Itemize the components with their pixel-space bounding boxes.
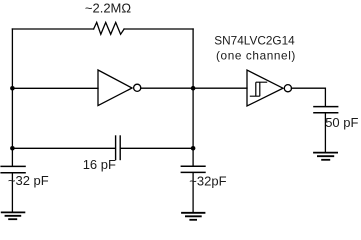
node C junction dot left-bottom (10, 146, 15, 151)
wire right vertical (192, 29, 194, 166)
capacitor C3 ~32pF right (181, 166, 206, 172)
ground right (313, 153, 338, 160)
svg-text:SN74LVC2G14: SN74LVC2G14 (214, 34, 295, 48)
wire cap to ground right (324, 113, 326, 153)
wire mid rail input (12, 87, 98, 89)
svg-text:~32pF: ~32pF (189, 173, 226, 188)
wire bottom rail left (12, 147, 115, 149)
wire cap to ground mid (192, 172, 194, 212)
inverter gate U1 (unbuffered inverter) (98, 70, 141, 106)
capacitor C1 16pF series (116, 135, 121, 160)
wire top rail right segment (124, 28, 193, 30)
svg-text:~2.2MΩ: ~2.2MΩ (85, 1, 131, 16)
node B junction dot right-mid (191, 86, 196, 91)
wire bottom rail right (121, 147, 193, 149)
wire left vertical (11, 29, 13, 166)
wire cap to ground left (11, 173, 13, 212)
wire inverter output to node (141, 87, 194, 89)
node D junction dot right-bottom (191, 146, 196, 151)
ground left (1, 212, 26, 219)
node A junction dot left-mid (10, 86, 15, 91)
capacitor C4 50pF right (313, 107, 338, 113)
schmitt-trigger inverter U2 SN74LVC2G14 (247, 70, 292, 106)
resistor R1 ~2.2Mohm (94, 22, 125, 34)
wire top rail left segment (12, 28, 93, 30)
svg-text:~32 pF: ~32 pF (8, 173, 49, 188)
wire schmitt output (291, 88, 325, 106)
ground mid (181, 213, 205, 220)
svg-text:(one channel): (one channel) (216, 49, 296, 63)
capacitor C2 ~32pF left (0, 166, 25, 172)
hysteresis symbol (250, 82, 267, 96)
svg-text:16 pF: 16 pF (83, 157, 116, 172)
svg-text:50 pF: 50 pF (325, 115, 358, 130)
wire node to schmitt input (193, 87, 247, 89)
